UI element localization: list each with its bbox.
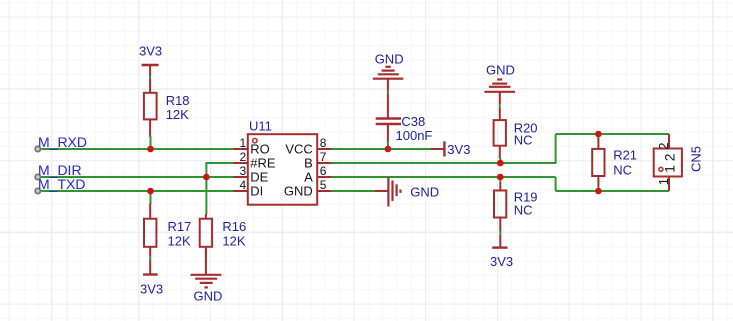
svg-text:12K: 12K	[168, 233, 191, 248]
junction top B run / R21	[595, 131, 602, 138]
svg-text:GND: GND	[284, 184, 313, 199]
connector pin 1	[656, 165, 677, 191]
svg-text:VCC: VCC	[285, 142, 312, 157]
label U11	[249, 118, 272, 133]
svg-text:100nF: 100nF	[396, 128, 433, 143]
svg-text:12K: 12K	[222, 233, 245, 248]
wire A to R19	[499, 177, 501, 184]
connector pin 2	[656, 134, 677, 161]
svg-text:1: 1	[656, 178, 671, 185]
wire A pin6 to right	[332, 177, 670, 191]
label R19 NC	[514, 189, 538, 217]
wire M_TXD to R17	[150, 191, 152, 204]
resistor R17	[144, 204, 156, 275]
svg-text:8: 8	[320, 136, 327, 150]
svg-text:3: 3	[240, 164, 247, 178]
pin 8 VCC	[285, 136, 331, 157]
svg-text:2: 2	[661, 153, 677, 161]
svg-text:RO: RO	[250, 142, 269, 157]
wire gnd to C38 tick	[387, 91, 389, 95]
IC U11 transceiver body	[248, 134, 317, 205]
svg-text:3V3: 3V3	[140, 282, 163, 297]
wire B pin7 to right	[332, 134, 670, 164]
wire M_RXD horizontal	[41, 148, 234, 150]
power port 3V3 right of VCC	[430, 141, 470, 157]
net label M_RXD	[38, 134, 87, 150]
svg-text:7: 7	[320, 150, 327, 164]
wire gnd to R20 tick	[499, 105, 501, 108]
wire M_DIR down to R16	[205, 177, 207, 215]
net label M_TXD	[38, 176, 85, 192]
ground above R20	[484, 63, 515, 105]
power port 3V3 below R19	[490, 248, 513, 269]
node M_RXD open terminal	[35, 146, 40, 151]
junction B/R20	[497, 160, 504, 167]
wire R16 tick	[205, 251, 207, 255]
svg-text:3V3: 3V3	[447, 142, 470, 157]
svg-text:R16: R16	[222, 219, 246, 234]
svg-text:NC: NC	[514, 203, 533, 218]
svg-text:R17: R17	[168, 219, 192, 234]
svg-text:CN5: CN5	[689, 146, 704, 172]
label R17 12K	[168, 219, 192, 248]
wire GND pin5	[332, 190, 375, 192]
connector CN5 body	[654, 149, 682, 177]
svg-text:2: 2	[656, 143, 671, 150]
wire C38 to VCC	[387, 142, 389, 149]
svg-text:C38: C38	[401, 114, 425, 129]
svg-text:6: 6	[320, 164, 327, 178]
label R16 12K	[222, 219, 246, 248]
wire VCC pin8 to 3V3	[332, 148, 431, 150]
svg-text:1: 1	[661, 165, 677, 173]
svg-text:DE: DE	[250, 170, 268, 185]
capacitor C38	[376, 94, 401, 143]
resistor R19	[494, 183, 506, 248]
resistor R18	[144, 79, 157, 137]
wire R21 top	[597, 134, 599, 139]
wire R21 bottom	[597, 187, 599, 192]
ground above C38	[373, 51, 404, 90]
label CN5	[689, 146, 704, 172]
pin 5 GND	[284, 178, 332, 199]
svg-text:GND: GND	[375, 51, 404, 66]
label R18 12K	[166, 93, 190, 122]
svg-text:4: 4	[240, 178, 247, 192]
junction VCC/C38	[385, 146, 392, 153]
ground right of pin5 rotated	[374, 177, 439, 206]
node M_DIR open terminal	[35, 174, 40, 179]
junction M_RXD/R18	[147, 146, 154, 153]
junction M_TXD/R17	[147, 188, 154, 195]
wire 3V3 to R18	[149, 76, 151, 79]
resistor R16	[200, 214, 212, 275]
junction M_DIR branch	[203, 174, 210, 181]
svg-text:#RE: #RE	[250, 156, 276, 171]
label C38 100nF	[396, 114, 433, 143]
svg-text:GND: GND	[194, 289, 223, 304]
label R21 NC	[613, 147, 637, 177]
net label M_DIR	[38, 162, 82, 178]
wire M_TXD horizontal	[41, 190, 234, 192]
pin 3 DE	[234, 164, 269, 185]
svg-text:R21: R21	[613, 147, 637, 162]
svg-text:5: 5	[320, 178, 327, 192]
label R20 NC	[514, 120, 538, 147]
ground below R16	[191, 275, 223, 304]
svg-text:R18: R18	[166, 93, 190, 108]
svg-text:DI: DI	[250, 184, 263, 199]
wire M_DIR to pin2 vertical and horizontal	[205, 163, 234, 177]
resistor R20	[494, 108, 506, 159]
svg-text:NC: NC	[514, 133, 533, 148]
pin 2 #RE	[234, 150, 276, 171]
svg-text:12K: 12K	[166, 107, 189, 122]
junction A/R19	[497, 174, 504, 181]
wire R19 to 3V3 tick	[499, 231, 501, 235]
resistor R21	[592, 138, 604, 187]
svg-text:NC: NC	[613, 163, 632, 178]
svg-text:U11: U11	[249, 118, 272, 133]
svg-text:M_TXD: M_TXD	[38, 176, 85, 192]
node M_TXD open terminal	[35, 188, 40, 193]
svg-text:1: 1	[240, 136, 247, 150]
power port 3V3 below R17	[140, 275, 163, 297]
svg-text:GND: GND	[486, 63, 515, 78]
pin 7 B	[304, 150, 331, 171]
wire R17 to 3V3 tick	[149, 256, 151, 260]
wire R18 to M_RXD	[150, 136, 152, 149]
junction bottom A run / R21	[595, 188, 602, 195]
pin 6 A	[304, 164, 331, 185]
svg-text:3V3: 3V3	[490, 254, 513, 269]
pin 1 RO	[234, 136, 270, 157]
power port 3V3 above R18	[139, 44, 162, 76]
svg-text:M_RXD: M_RXD	[38, 134, 87, 150]
svg-text:GND: GND	[410, 184, 439, 199]
wire R20 to B	[499, 158, 501, 163]
wire M_DIR horizontal	[41, 176, 234, 178]
pin 4 DI	[234, 178, 264, 199]
svg-text:3V3: 3V3	[139, 44, 162, 59]
svg-text:B: B	[304, 156, 313, 171]
svg-text:A: A	[304, 170, 313, 185]
svg-text:2: 2	[240, 150, 247, 164]
